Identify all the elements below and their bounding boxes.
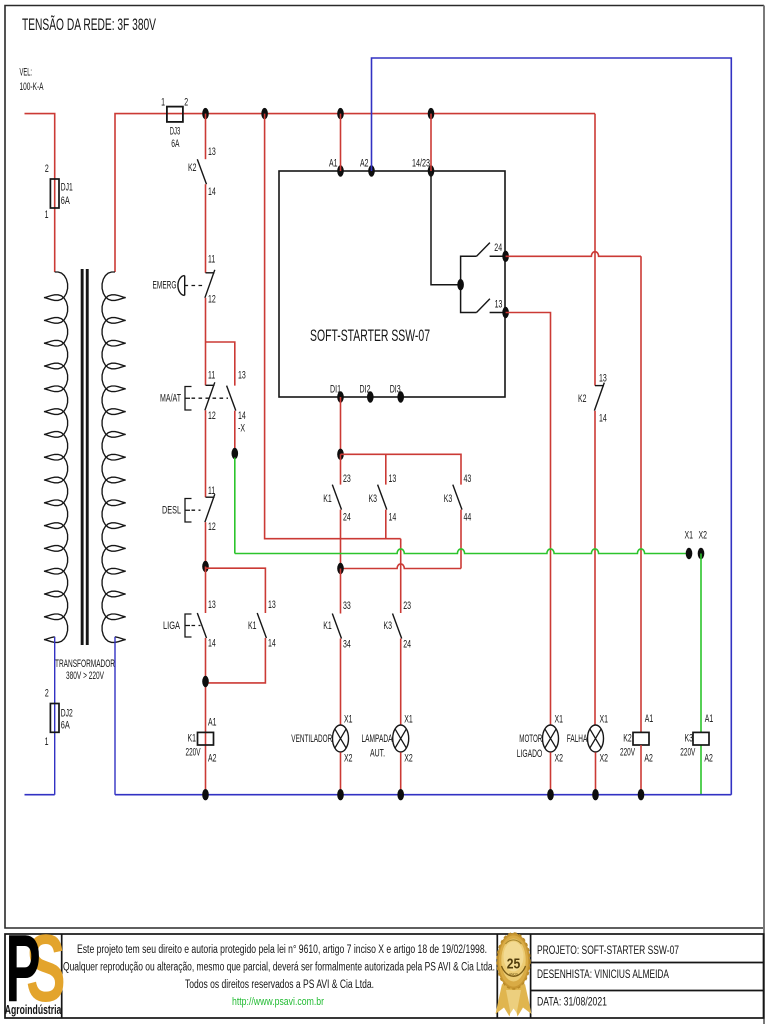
svg-text:13: 13 [495, 299, 503, 311]
wire: terminal 13 to MOTOR LIGADO lamp [506, 313, 551, 725]
wire: blue neutral from A2 up and around right side [372, 58, 732, 795]
wire [205, 522, 207, 566]
contact K1 23/24 (NO) [340, 454, 342, 484]
lamp MOTOR LIGADO [543, 725, 559, 752]
svg-text:VENTILADOR: VENTILADOR [291, 733, 332, 745]
svg-text:11: 11 [208, 485, 215, 497]
lamp LAMPADA AUT. [393, 725, 409, 752]
internal relay contact 24 (NO, horizontal) [477, 243, 490, 257]
wire [234, 411, 236, 454]
svg-text:2: 2 [45, 163, 49, 175]
svg-text:12: 12 [208, 521, 216, 533]
svg-text:LIGA: LIGA [163, 620, 180, 632]
svg-text:http://www.psavi.com.br: http://www.psavi.com.br [232, 996, 324, 1008]
svg-text:Este projeto tem seu direito e: Este projeto tem seu direito e autoria p… [77, 944, 487, 956]
svg-text:220V: 220V [186, 747, 201, 759]
svg-text:14: 14 [238, 410, 246, 422]
svg-text:ANOS: ANOS [509, 972, 518, 977]
wire: A1 feed from bus [340, 114, 342, 171]
terminal 13 [502, 307, 509, 318]
wire: K3-44 down to lower rail [460, 510, 462, 569]
svg-text:A2: A2 [644, 753, 653, 765]
contact K2 13/14 (NO) [197, 159, 206, 184]
svg-text:14: 14 [208, 638, 216, 650]
wire: bus right end through K2 13/14 to FALHA lamp [594, 114, 596, 386]
wire [594, 411, 596, 725]
op: SOFT-STARTER SSW-07 box U1 [279, 171, 505, 397]
svg-text:Todos os direitos reservados a: Todos os direitos reservados a PS AVI & … [185, 979, 374, 991]
25 years seal badge [496, 933, 532, 1017]
svg-text:1: 1 [45, 736, 49, 748]
svg-text:A2: A2 [704, 753, 713, 765]
svg-text:1: 1 [161, 97, 165, 109]
node [202, 676, 209, 687]
svg-text:K3: K3 [444, 493, 453, 505]
svg-text:A2: A2 [360, 158, 369, 170]
wire [340, 752, 342, 794]
node [337, 563, 344, 574]
wire: branch to K1 seal-in contact [206, 568, 266, 613]
transformer T1 primary winding [44, 272, 68, 642]
svg-text:FALHA: FALHA [567, 733, 588, 745]
contact K3 23/24 (NO) [393, 614, 402, 639]
svg-text:LIGADO: LIGADO [517, 748, 543, 760]
emergency mushroom head + dashed link [178, 276, 185, 296]
terminal 24 [502, 251, 509, 262]
contact K2 13/14 right (NC-style) [595, 385, 604, 387]
svg-text:Qualquer reprodução ou alteraç: Qualquer reprodução ou alteração, mesmo … [63, 962, 495, 974]
svg-text:PROJETO: SOFT-STARTER SSW-07: PROJETO: SOFT-STARTER SSW-07 [537, 943, 679, 957]
svg-text:DESL: DESL [162, 505, 181, 517]
svg-text:A1: A1 [208, 717, 217, 729]
svg-text:MA/AT: MA/AT [160, 393, 181, 405]
wire [205, 638, 207, 795]
svg-text:DJ3: DJ3 [170, 126, 181, 138]
svg-text:A2: A2 [208, 753, 217, 765]
svg-text:SOFT-STARTER SSW-07: SOFT-STARTER SSW-07 [310, 326, 430, 345]
contact DESL 11/12 (NC) [206, 496, 215, 498]
svg-text:34: 34 [343, 639, 351, 651]
internal wiring 14/23 to relay contacts [431, 171, 505, 313]
svg-text:1: 1 [45, 209, 49, 221]
wire [550, 752, 552, 794]
wire [205, 298, 207, 386]
svg-text:6A: 6A [61, 720, 70, 732]
svg-text:220V: 220V [620, 747, 635, 759]
wire: 14/23 from bus [430, 114, 432, 171]
wire: control line from bus through K2 contact [205, 114, 207, 160]
wire: red main top bus [115, 114, 595, 272]
selector bracket + dashed link MA/AT [185, 387, 192, 411]
svg-text:K2: K2 [623, 733, 632, 745]
svg-text:13: 13 [208, 146, 216, 158]
lamp VENTILADOR [333, 725, 349, 752]
svg-text:6A: 6A [61, 195, 70, 207]
svg-text:K1: K1 [248, 620, 257, 632]
node: bus junction dots [202, 108, 209, 119]
wire: red phase stub top-left [25, 114, 55, 272]
node: internal junction [457, 279, 464, 290]
svg-text:MOTOR: MOTOR [519, 733, 542, 745]
wire [340, 639, 342, 725]
lamp FALHA [588, 725, 604, 752]
node [337, 449, 344, 460]
svg-text:Agroindústria: Agroindústria [5, 1003, 62, 1017]
svg-text:13: 13 [268, 599, 276, 611]
svg-text:TRANSFORMADOR: TRANSFORMADOR [55, 658, 115, 670]
svg-text:14: 14 [389, 512, 397, 524]
wire [385, 510, 387, 539]
transformer core [81, 269, 84, 645]
svg-text:LAMPADA: LAMPADA [362, 733, 393, 745]
contact K3 43/44 (NO) [453, 485, 462, 510]
coil K1 220V [198, 732, 214, 745]
svg-text:X1: X1 [344, 714, 353, 726]
fuse DJ2 [50, 704, 59, 733]
transformer T1 secondary winding [102, 272, 126, 642]
svg-text:25: 25 [507, 956, 521, 973]
svg-text:380V > 220V: 380V > 220V [66, 670, 104, 682]
svg-text:13: 13 [238, 370, 246, 382]
svg-text:14/23: 14/23 [412, 158, 430, 170]
node -X junction [232, 448, 239, 459]
wire [595, 752, 597, 794]
svg-text:K3: K3 [685, 733, 694, 745]
svg-text:-X: -X [238, 423, 245, 435]
svg-text:A1: A1 [329, 158, 338, 170]
wire: branch to MA/AT right pole [206, 342, 235, 386]
svg-text:X2: X2 [344, 753, 353, 765]
contact MA/AT 11/12 (NC pole) [206, 384, 215, 386]
svg-text:K1: K1 [323, 493, 332, 505]
svg-text:A1: A1 [645, 713, 654, 725]
bottom bus junction nodes [202, 789, 209, 800]
svg-text:12: 12 [208, 410, 216, 422]
node: LIGA branch junction [202, 561, 209, 572]
svg-text:12: 12 [208, 294, 216, 306]
svg-text:K1: K1 [323, 620, 332, 632]
wire: terminal 24 to K2 coil (hop over x595) [506, 252, 641, 257]
svg-text:DJ1: DJ1 [61, 182, 73, 194]
svg-text:X1: X1 [404, 714, 413, 726]
PS Agroindustria logo [5, 914, 66, 1022]
svg-text:X2: X2 [699, 530, 708, 542]
wire [385, 454, 387, 484]
svg-text:11: 11 [208, 370, 215, 382]
wire: green from -X junction along lamp row (hops over red drops) [234, 458, 236, 554]
wire: green X2 to K3 coil to neutral [700, 554, 702, 795]
svg-text:TENSÃO DA REDE: 3F 380V: TENSÃO DA REDE: 3F 380V [22, 15, 156, 34]
contact EMERG 11/12 (NC) [206, 272, 215, 274]
svg-text:K1: K1 [188, 733, 197, 745]
wire: feed drop to K3 23/24 [400, 539, 402, 613]
svg-text:DATA: 31/08/2021: DATA: 31/08/2021 [537, 995, 607, 1009]
svg-text:23: 23 [403, 600, 411, 612]
internal relay contact 13 (NO, horizontal) [477, 299, 490, 313]
wire [206, 638, 266, 683]
fuse DJ3 [167, 107, 183, 122]
svg-text:13: 13 [208, 599, 216, 611]
contact K3 13/14 (NO) [378, 485, 387, 510]
wire: bus drop to lamp feed rail [265, 114, 401, 539]
contact K1 13/14 seal-in (NO) [257, 613, 266, 638]
svg-text:220V: 220V [680, 747, 695, 759]
svg-text:33: 33 [343, 600, 351, 612]
wire [400, 752, 402, 794]
svg-text:K3: K3 [384, 620, 393, 632]
wire: K1-24 down through crossing to node [340, 510, 342, 569]
wire [640, 745, 642, 795]
contact MA/AT 13/14 (NO pole) [227, 386, 236, 411]
svg-text:K2: K2 [188, 162, 197, 174]
fuse DJ1 [50, 179, 59, 208]
contact LIGA 13/14 (NO) [197, 613, 206, 638]
wire [205, 567, 207, 614]
svg-text:23: 23 [343, 473, 351, 485]
svg-text:2: 2 [184, 97, 188, 109]
svg-text:X2: X2 [600, 753, 609, 765]
svg-text:A1: A1 [705, 713, 714, 725]
svg-text:K2: K2 [578, 393, 587, 405]
svg-text:VEL:: VEL: [20, 67, 33, 79]
svg-text:2: 2 [45, 688, 49, 700]
svg-text:14: 14 [599, 413, 607, 425]
svg-text:44: 44 [464, 512, 472, 524]
svg-text:DESENHISTA: VINICIUS ALMEIDA: DESENHISTA: VINICIUS ALMEIDA [537, 967, 670, 981]
svg-text:11: 11 [208, 254, 215, 266]
svg-text:43: 43 [464, 473, 472, 485]
wire: blue secondary right leg [114, 637, 116, 795]
wire: blue neutral stub bottom-left [25, 794, 55, 796]
svg-text:AUT.: AUT. [370, 748, 385, 760]
wire: lower rail with hop over x400.7 [341, 564, 462, 569]
contact K1 33/34 (NO) [340, 569, 342, 614]
wire [205, 410, 207, 497]
svg-text:100-K-A: 100-K-A [20, 81, 44, 93]
wire: blue secondary left leg [54, 637, 56, 795]
svg-text:24: 24 [403, 639, 411, 651]
svg-text:13: 13 [389, 473, 397, 485]
svg-text:6A: 6A [171, 138, 179, 150]
svg-text:13: 13 [599, 373, 607, 385]
svg-text:X2: X2 [555, 753, 564, 765]
svg-text:X1: X1 [555, 714, 564, 726]
coil K3 220V [693, 732, 709, 745]
svg-text:DJ2: DJ2 [61, 708, 73, 720]
wire [205, 184, 207, 273]
wire: blue bottom neutral bus [115, 794, 731, 796]
coil K2 220V [633, 732, 649, 745]
wire: DI1 to contact row [340, 397, 342, 454]
wire: contact feeder rail [341, 454, 462, 484]
footer title block [5, 934, 764, 1018]
svg-text:24: 24 [343, 512, 351, 524]
svg-text:X2: X2 [404, 753, 413, 765]
svg-text:X1: X1 [600, 714, 609, 726]
svg-text:K3: K3 [369, 493, 378, 505]
svg-text:X1: X1 [685, 530, 694, 542]
svg-text:14: 14 [268, 638, 276, 650]
svg-text:14: 14 [208, 186, 216, 198]
svg-text:EMERG: EMERG [153, 280, 177, 292]
wire [400, 639, 402, 725]
svg-text:24: 24 [494, 242, 502, 254]
